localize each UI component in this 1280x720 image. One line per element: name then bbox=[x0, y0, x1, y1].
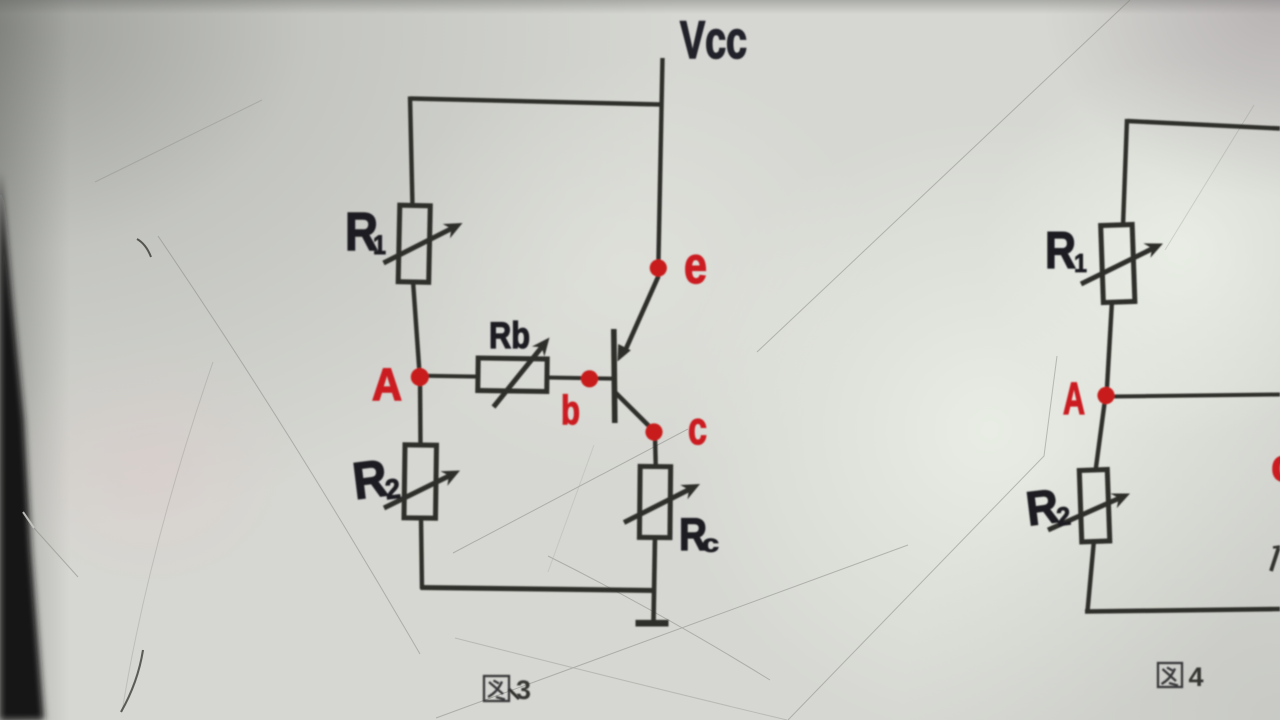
wire: node A to R2 (right) bbox=[1096, 396, 1106, 471]
scratch S5 bbox=[436, 545, 908, 718]
svg-text:1: 1 bbox=[1074, 248, 1087, 278]
svg-text:Rb: Rb bbox=[489, 315, 530, 356]
svg-text:A: A bbox=[372, 359, 402, 410]
resistor R2 arrow (right) bbox=[1048, 498, 1121, 531]
resistor R1 box bbox=[398, 205, 430, 282]
svg-text:R: R bbox=[1045, 222, 1076, 280]
transistor Q1 emitter line bbox=[625, 276, 659, 351]
ground bar bbox=[636, 620, 669, 627]
wire: node A to R2 bbox=[418, 377, 423, 446]
scratch S3 dark hook bbox=[137, 239, 151, 257]
wire: Vcc lead down to node e bbox=[658, 58, 662, 268]
node A dot (right) bbox=[1097, 387, 1114, 404]
resistor Rb box bbox=[478, 358, 547, 391]
scratch S6 bbox=[453, 429, 688, 553]
bezel wedge (left edge of photographed screen) bbox=[0, 172, 44, 720]
wire: bottom horizontal bbox=[421, 588, 656, 591]
transistor Q1 collector line bbox=[615, 392, 653, 430]
scratch S1 bbox=[95, 100, 262, 182]
scratch S4 dark lower part bbox=[121, 650, 143, 712]
wire: bottom horizontal (right) bbox=[1085, 609, 1280, 612]
node c dot bbox=[645, 423, 662, 440]
wire: left vertical upper (top wire to R1) bbox=[410, 97, 413, 207]
label R2 (right) bbox=[1023, 479, 1072, 537]
wire: node A to right edge bbox=[1112, 395, 1280, 397]
svg-text:e: e bbox=[684, 237, 707, 295]
transistor Q1 bar bbox=[614, 329, 615, 423]
resistor R2 box (right) bbox=[1079, 470, 1109, 542]
wire: node A to Rb bbox=[424, 374, 480, 379]
scratch S8 polyline bbox=[788, 356, 1057, 720]
resistor R2 arrow bbox=[384, 475, 451, 508]
svg-text:c: c bbox=[1271, 439, 1280, 491]
caption fig 3 (hand-drawn CJK tu character + 3) bbox=[484, 676, 509, 701]
wire: R2 to bottom wire bbox=[421, 517, 422, 589]
scratch S13 bbox=[548, 445, 594, 572]
partial italic I at right edge bbox=[1271, 548, 1279, 571]
wire: R1 to node A bbox=[413, 281, 420, 377]
scratch S10 bbox=[1165, 105, 1254, 250]
scratch S2 bbox=[158, 236, 420, 654]
wire: top horizontal bbox=[1127, 121, 1280, 129]
wire: corner vertical to R1 bbox=[1123, 119, 1127, 226]
node A dot bbox=[411, 368, 429, 386]
wire: R1 to node A (right) bbox=[1107, 301, 1113, 396]
resistor R1 box (right) bbox=[1101, 224, 1135, 302]
svg-text:3: 3 bbox=[516, 675, 531, 705]
resistor Rc arrow bbox=[624, 489, 691, 523]
resistor Rb arrow bbox=[494, 345, 544, 407]
transistor Q1 emitter arrowhead (PNP, points to bar) bbox=[618, 344, 631, 362]
svg-text:1: 1 bbox=[373, 230, 386, 260]
caption fig 4 (hand-drawn CJK tu character + 4) bbox=[1158, 663, 1182, 687]
scratch S4 long curve bbox=[122, 362, 213, 712]
svg-text:c: c bbox=[688, 402, 707, 454]
scratch S14 bottom arc bbox=[455, 638, 787, 720]
svg-text:b: b bbox=[561, 387, 580, 433]
resistor R1 arrow (right) bbox=[1081, 248, 1153, 284]
wire: R2 to bottom (right) bbox=[1088, 540, 1095, 611]
resistor R2 box bbox=[404, 445, 437, 518]
svg-text:c: c bbox=[702, 530, 719, 558]
node b dot bbox=[581, 370, 598, 387]
scratch S9 bbox=[757, 0, 1130, 352]
wire: Rb to base bar bbox=[546, 378, 612, 379]
resistor Rc box bbox=[639, 466, 670, 537]
svg-text:Vcc: Vcc bbox=[680, 11, 747, 70]
svg-text:A: A bbox=[1063, 373, 1085, 424]
scratch S7 bbox=[548, 556, 770, 680]
wire: top horizontal bbox=[410, 99, 661, 105]
node e dot bbox=[650, 259, 667, 276]
pale scratch crossing bezel bbox=[23, 512, 34, 528]
wire: Rc to ground bbox=[654, 536, 656, 622]
resistor R1 arrow bbox=[384, 228, 453, 263]
label R2 bbox=[350, 448, 403, 511]
svg-text:4: 4 bbox=[1189, 662, 1204, 692]
wire: node c to Rc bbox=[653, 436, 658, 468]
